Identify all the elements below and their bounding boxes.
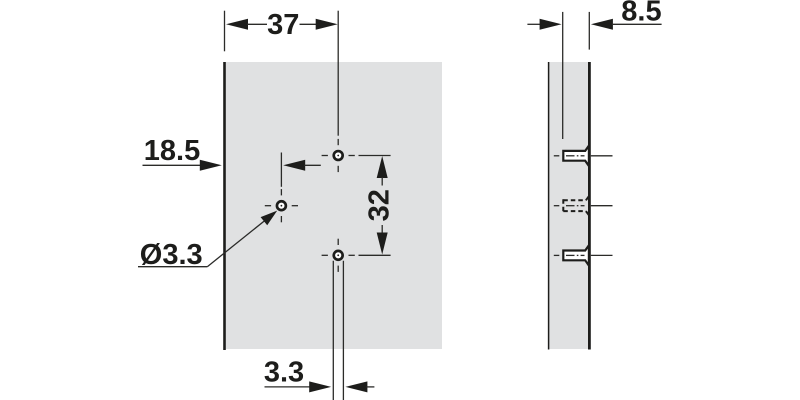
svg-text:8.5: 8.5: [621, 0, 661, 28]
slot right line below hole C: [342, 261, 344, 400]
countersunk hole S3 centerline: [554, 254, 613, 256]
hole A (top screw hole): [334, 151, 343, 160]
front view plate face: [226, 62, 443, 349]
hole A centerline dashes: [322, 139, 355, 172]
dimension 3.3 line and arrows: [265, 381, 375, 392]
svg-text:3.3: 3.3: [264, 357, 304, 389]
dimension 32 text (rotated): [363, 189, 395, 221]
svg-text:32: 32: [363, 189, 395, 221]
diameter label text Ø3.3: [140, 239, 203, 271]
dimension 3.3 text: [264, 357, 304, 389]
svg-text:18.5: 18.5: [144, 135, 200, 167]
dimension 37 extension line left: [224, 11, 226, 52]
side view plate left edge: [548, 62, 550, 350]
dimension 18.5 inner arrow: [283, 160, 321, 171]
dimension 18.5 line and outer arrow: [143, 160, 222, 171]
countersunk hole S1 top profile: [563, 146, 589, 166]
slot left line below hole C: [332, 261, 334, 400]
countersunk hole S2 middle profile (hidden, dashed): [563, 196, 589, 215]
hole C (bottom screw hole): [334, 251, 343, 260]
countersunk hole S1 centerline: [554, 155, 613, 157]
dimension 37 extension line right (hole A centerline): [337, 11, 339, 136]
front view plate left edge: [223, 62, 226, 350]
side view plate right edge: [588, 62, 591, 350]
dimension 32 extension line bottom: [359, 254, 391, 256]
dimension 18.5 text: [144, 135, 200, 167]
countersunk hole S3 bottom profile: [563, 245, 589, 265]
dimension 37 text: [267, 9, 299, 41]
countersunk hole S2 centerline: [554, 205, 613, 207]
hole C centerline dashes: [322, 239, 355, 272]
dimension 32 extension line top: [359, 155, 391, 157]
dimension 8.5 text: [621, 0, 661, 28]
diameter label leader line: [138, 216, 271, 267]
dimension 18.5 extension line (hole B centerline): [280, 153, 282, 187]
diameter label leader arrowhead: [261, 211, 278, 226]
dimension 8.5 right arrow and line: [591, 19, 662, 30]
hole B (middle offset screw hole): [277, 201, 286, 210]
dimension 8.5 extension line left: [562, 12, 564, 139]
svg-text:37: 37: [267, 9, 299, 41]
dimension 8.5 extension line right: [588, 12, 590, 50]
dimension 32 line and arrows: [377, 156, 388, 255]
dimension 8.5 left line and arrow: [527, 19, 561, 30]
side view plate body: [548, 62, 588, 349]
hole B centerline dashes: [265, 189, 298, 222]
dimension 37 line and arrows: [226, 19, 338, 30]
